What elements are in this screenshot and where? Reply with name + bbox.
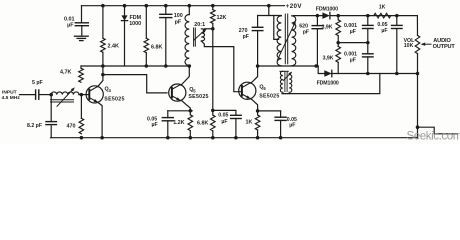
tuning arrow L1: [57, 89, 73, 106]
wire 3.9K mid link: [338, 42, 368, 44]
wire Q4 collector to Q5 base: [103, 75, 167, 93]
transformer T3 core: [284, 72, 286, 92]
wire T2 secondary top to detector: [293, 15, 322, 17]
svg-text:1K: 1K: [379, 5, 386, 11]
capacitor C4 8.2pF: [46, 121, 57, 123]
wire 100pF bottom lead: [165, 18, 167, 66]
node 100pF top: [164, 4, 168, 8]
wire detector corner drop: [318, 66, 324, 74]
capacitor C6 0.05uF (base decoupling): [231, 114, 242, 116]
transistor Q4 SE5025: [86, 86, 103, 103]
wire bottom ground rail: [51, 137, 418, 139]
node pot / output node: [416, 72, 420, 76]
svg-text:3,9K: 3,9K: [322, 24, 333, 30]
wire 0.001(2) bottom lead: [367, 57, 369, 74]
transistor Q6 SE5025: [239, 82, 256, 99]
resistor R2 6.8K (top): [144, 38, 149, 52]
resistor R1 2.4K: [101, 38, 106, 52]
wire 1K leads: [257, 111, 259, 115]
tuning arrow T3: [283, 73, 291, 81]
transformer T3 top bar: [280, 70, 288, 72]
transformer T3 bottom bar: [282, 93, 291, 95]
svg-text:3,9K: 3,9K: [323, 56, 334, 62]
svg-text:INPUT: INPUT: [2, 89, 17, 95]
transformer T3 winding right: [289, 75, 292, 93]
capacitor C10 0.001uF (upper): [363, 24, 374, 26]
wire 620pF top lead: [316, 16, 318, 26]
svg-text:1000: 1000: [129, 21, 141, 27]
wire 270pF bottom lead: [257, 31, 259, 66]
node 1K ground: [256, 136, 260, 140]
resistor R11 1K (deemphasis): [374, 13, 391, 18]
transistor Q5 SE5025: [169, 84, 186, 101]
wire 6.8K bottom lead: [145, 53, 147, 66]
wire 1.2K leads: [189, 111, 191, 115]
wire 100pF top lead: [165, 6, 167, 15]
wire volume pot bottom lead: [417, 54, 419, 138]
transformer T1 secondary winding: [201, 29, 204, 41]
wire 20:1 secondary top lead: [204, 28, 213, 30]
resistor R10 3.9K (lower): [336, 46, 341, 62]
svg-text:Seekic.com: Seekic.com: [407, 130, 460, 143]
node 620pF bottom: [314, 64, 318, 68]
node 12K top: [211, 4, 215, 8]
diode D3 FDM1000 (bottom): [324, 70, 332, 77]
wire 0.001(1) bottom lead: [367, 29, 369, 43]
capacitor C8 270pF: [252, 26, 263, 28]
wire left lower rail (Q4/Q5 collector supply node): [81, 65, 189, 67]
svg-text:SE5025: SE5025: [104, 96, 124, 102]
resistor R4 470: [79, 118, 84, 133]
wire 470 top lead: [80, 95, 82, 119]
wire 0.05uF(3) bottom lead: [280, 120, 282, 137]
wire volume pot top lead: [416, 16, 418, 36]
node 20:1 primary bottom / Q5 collector: [188, 64, 192, 68]
wire Q6 emitter: [251, 99, 258, 111]
node Q4 emitter ground: [100, 136, 104, 140]
capacitor C3 5pF input: [35, 90, 37, 99]
node 6.8K top: [145, 4, 149, 8]
wire Q6 collector riser: [251, 66, 258, 83]
capacitor C2 100pF: [160, 13, 172, 15]
node input junction: [49, 93, 53, 97]
node 3.9K midpoint: [336, 41, 340, 45]
node 0.05uF(4) bottom: [395, 72, 399, 76]
svg-text:OUTPUT: OUTPUT: [433, 44, 456, 50]
wire input lead: [20, 94, 36, 96]
wire 0.05uF(3) top lead: [280, 111, 282, 117]
wire 620pF bottom lead: [316, 29, 318, 66]
ground symbol (C1): [74, 35, 88, 37]
resistor R6 1.2K: [188, 115, 193, 131]
svg-text:SE5025: SE5025: [188, 94, 208, 100]
wire 20:1 primary top lead: [188, 6, 190, 15]
svg-text:6: 6: [263, 86, 266, 91]
transformer T2 core: [284, 14, 286, 64]
node 0.05uF(2) ground: [234, 136, 238, 140]
wire 0.001(2) top lead: [367, 43, 369, 54]
diode D2 FDM1000 (top): [322, 12, 330, 19]
resistor R9 3.9K (upper): [336, 20, 341, 36]
diode D1 FDM1000 (shunt): [121, 15, 127, 20]
node 6.8K bottom rail: [145, 64, 149, 68]
node Q4 collector junction: [101, 73, 105, 77]
wire 0.05uF(1) bottom lead: [167, 121, 169, 138]
wire divider to 0.05uF(base decoup): [213, 110, 236, 115]
svg-text:µF: µF: [152, 122, 158, 128]
node divider junction 6.8K top: [211, 109, 215, 113]
node Q5 emitter/1.2K: [189, 109, 193, 113]
node 470 ground: [80, 136, 84, 140]
tuning arrow T2: [277, 24, 294, 61]
svg-text:SE5025: SE5025: [259, 93, 279, 99]
wire top +20V rail: [82, 5, 285, 7]
wire 0.05uF(4) bottom lead: [396, 29, 398, 74]
node 0.001(2) bottom: [366, 72, 370, 76]
svg-text:4,7K: 4,7K: [60, 70, 71, 76]
wire detector top rail: [331, 15, 418, 17]
capacitor C1 0.01uF bypass: [81, 6, 83, 23]
svg-text:6.8K: 6.8K: [197, 121, 208, 127]
inductor L1 tuning coil: [51, 92, 79, 95]
svg-text:µF: µF: [381, 28, 387, 34]
wire 0.05uF(1) top lead: [167, 111, 169, 118]
svg-text:pF: pF: [243, 34, 249, 40]
node 12K / 20:1 secondary top: [211, 27, 215, 31]
wire 6.8K(2) bottom lead: [212, 131, 214, 138]
svg-text:pF: pF: [175, 19, 182, 25]
wire mid rail (T2 bottom): [258, 65, 319, 67]
svg-text:5 pF: 5 pF: [32, 80, 43, 86]
capacitor C7 0.05uF (Q6 emitter): [275, 116, 286, 118]
node 0.05uF(1) ground: [166, 136, 170, 140]
wire 4.7K top lead / rail corner: [80, 66, 82, 68]
wire 12K bottom / divider column: [212, 23, 214, 115]
wire 20:1 secondary bottom to Q6 base riser: [201, 41, 242, 92]
node pot lower junction: [416, 125, 420, 129]
svg-text:µF: µF: [350, 29, 356, 35]
svg-text:470: 470: [67, 124, 76, 130]
wire coil to Q4 base: [79, 94, 89, 96]
wire +20V drop: [268, 6, 270, 16]
tuning arrow T1: [194, 30, 205, 40]
svg-text:2.4K: 2.4K: [108, 44, 119, 50]
wire 8.2pF column: [50, 95, 52, 122]
svg-text:1K: 1K: [246, 120, 253, 126]
svg-text:µF: µF: [221, 119, 227, 125]
node Q6 emitter/1K: [256, 109, 260, 113]
potentiometer VOL 10K: [415, 35, 420, 53]
wire 12K top lead: [212, 6, 214, 10]
transformer T1 20:1 primary winding: [185, 15, 189, 66]
node 620pF top: [316, 14, 320, 18]
wire T2 top node: [258, 15, 282, 17]
svg-text:6.8K: 6.8K: [151, 45, 162, 51]
wire 0.05uF(4) top lead: [396, 16, 398, 26]
svg-text:5: 5: [193, 88, 196, 93]
transformer T3 tertiary winding left: [280, 71, 282, 92]
svg-text:pF: pF: [303, 29, 309, 35]
wire Q5 emitter row: [168, 110, 192, 112]
svg-text:20:1: 20:1: [194, 22, 205, 28]
wire 2.4K bottom lead: [102, 52, 104, 66]
wire Q4 emitter down: [98, 102, 102, 137]
wire 3.9K(1) top lead: [337, 16, 339, 20]
node 0.05uF(4) top: [395, 14, 399, 18]
node 1.2K ground: [189, 136, 193, 140]
wire 270pF top lead: [257, 16, 259, 28]
wire 2.4K top lead: [102, 6, 104, 39]
wire output stub: [418, 127, 458, 134]
transformer T1 core: [193, 28, 195, 46]
svg-text:FDM1000: FDM1000: [316, 6, 338, 12]
node 2.4K bottom: [101, 64, 105, 68]
wire Q5 emitter: [181, 100, 190, 111]
capacitor C11 0.001uF (lower): [363, 53, 374, 55]
svg-text:µF: µF: [350, 58, 356, 64]
svg-text:4: 4: [109, 88, 112, 93]
svg-text:µF: µF: [289, 122, 295, 128]
node 0.05uF(3) ground: [279, 136, 283, 140]
wire FDM1000 diode top lead: [124, 6, 126, 16]
node 20:1 primary top: [188, 4, 192, 8]
wire 3.9K(2) leads: [337, 43, 339, 47]
node 2.4K top: [101, 4, 105, 8]
svg-text:100: 100: [174, 13, 183, 19]
node 0.001 midpoint: [366, 41, 370, 45]
transformer T2 secondary winding: [292, 16, 296, 66]
wire +20V tap drop: [274, 16, 279, 40]
svg-text:µF: µF: [67, 22, 74, 28]
inductor L1 core: [51, 99, 74, 101]
resistor R3 12K: [211, 10, 216, 24]
node Q6 collector / 270pF junction: [256, 64, 260, 68]
wire diode2 cathode to output node: [332, 73, 418, 75]
resistor R8 1K (Q6 emitter): [255, 115, 260, 130]
wire 0.001(1) top lead: [367, 16, 369, 26]
wire input node to coil: [40, 94, 52, 96]
node 3.9K top: [336, 14, 340, 18]
node +20V rail junction: [267, 4, 271, 8]
svg-text:12K: 12K: [217, 15, 227, 21]
svg-text:8.2 pF: 8.2 pF: [27, 123, 42, 129]
node diode top: [123, 4, 127, 8]
node 100pF bottom: [164, 64, 168, 68]
wire Q5 collector riser: [181, 66, 189, 85]
resistor R5 4.7K: [79, 68, 84, 82]
svg-text:FDM1000: FDM1000: [317, 80, 339, 86]
node 0.001(1) top: [366, 14, 370, 18]
node 6.8K(2) ground: [211, 136, 215, 140]
wire FDM1000 diode bottom lead: [124, 21, 126, 66]
svg-text:+20V: +20V: [286, 3, 303, 10]
capacitor C9 620pF: [312, 25, 323, 27]
svg-text:0.05: 0.05: [218, 113, 228, 119]
svg-text:1.2K: 1.2K: [173, 120, 184, 126]
capacitor C5 0.05uF (Q5 emitter): [162, 117, 173, 119]
svg-text:4.5 MHz: 4.5 MHz: [2, 95, 21, 101]
wire 0.05uF(2) bottom lead: [235, 119, 237, 138]
wire Q6 emitter row: [258, 110, 281, 112]
transformer T2 primary winding: [277, 16, 281, 66]
wire Q4 collector riser: [102, 66, 104, 75]
node Q4 base bias junction: [80, 93, 84, 97]
capacitor C12 0.05uF: [392, 24, 403, 26]
pot wiper arrow: [422, 43, 431, 45]
wire 3.9K(1) bottom lead: [337, 36, 339, 43]
wire 6.8K top lead: [145, 6, 147, 39]
resistor R7 6.8K (Q5): [211, 115, 216, 131]
wire tertiary return: [282, 74, 380, 94]
svg-text:10K: 10K: [404, 43, 414, 49]
